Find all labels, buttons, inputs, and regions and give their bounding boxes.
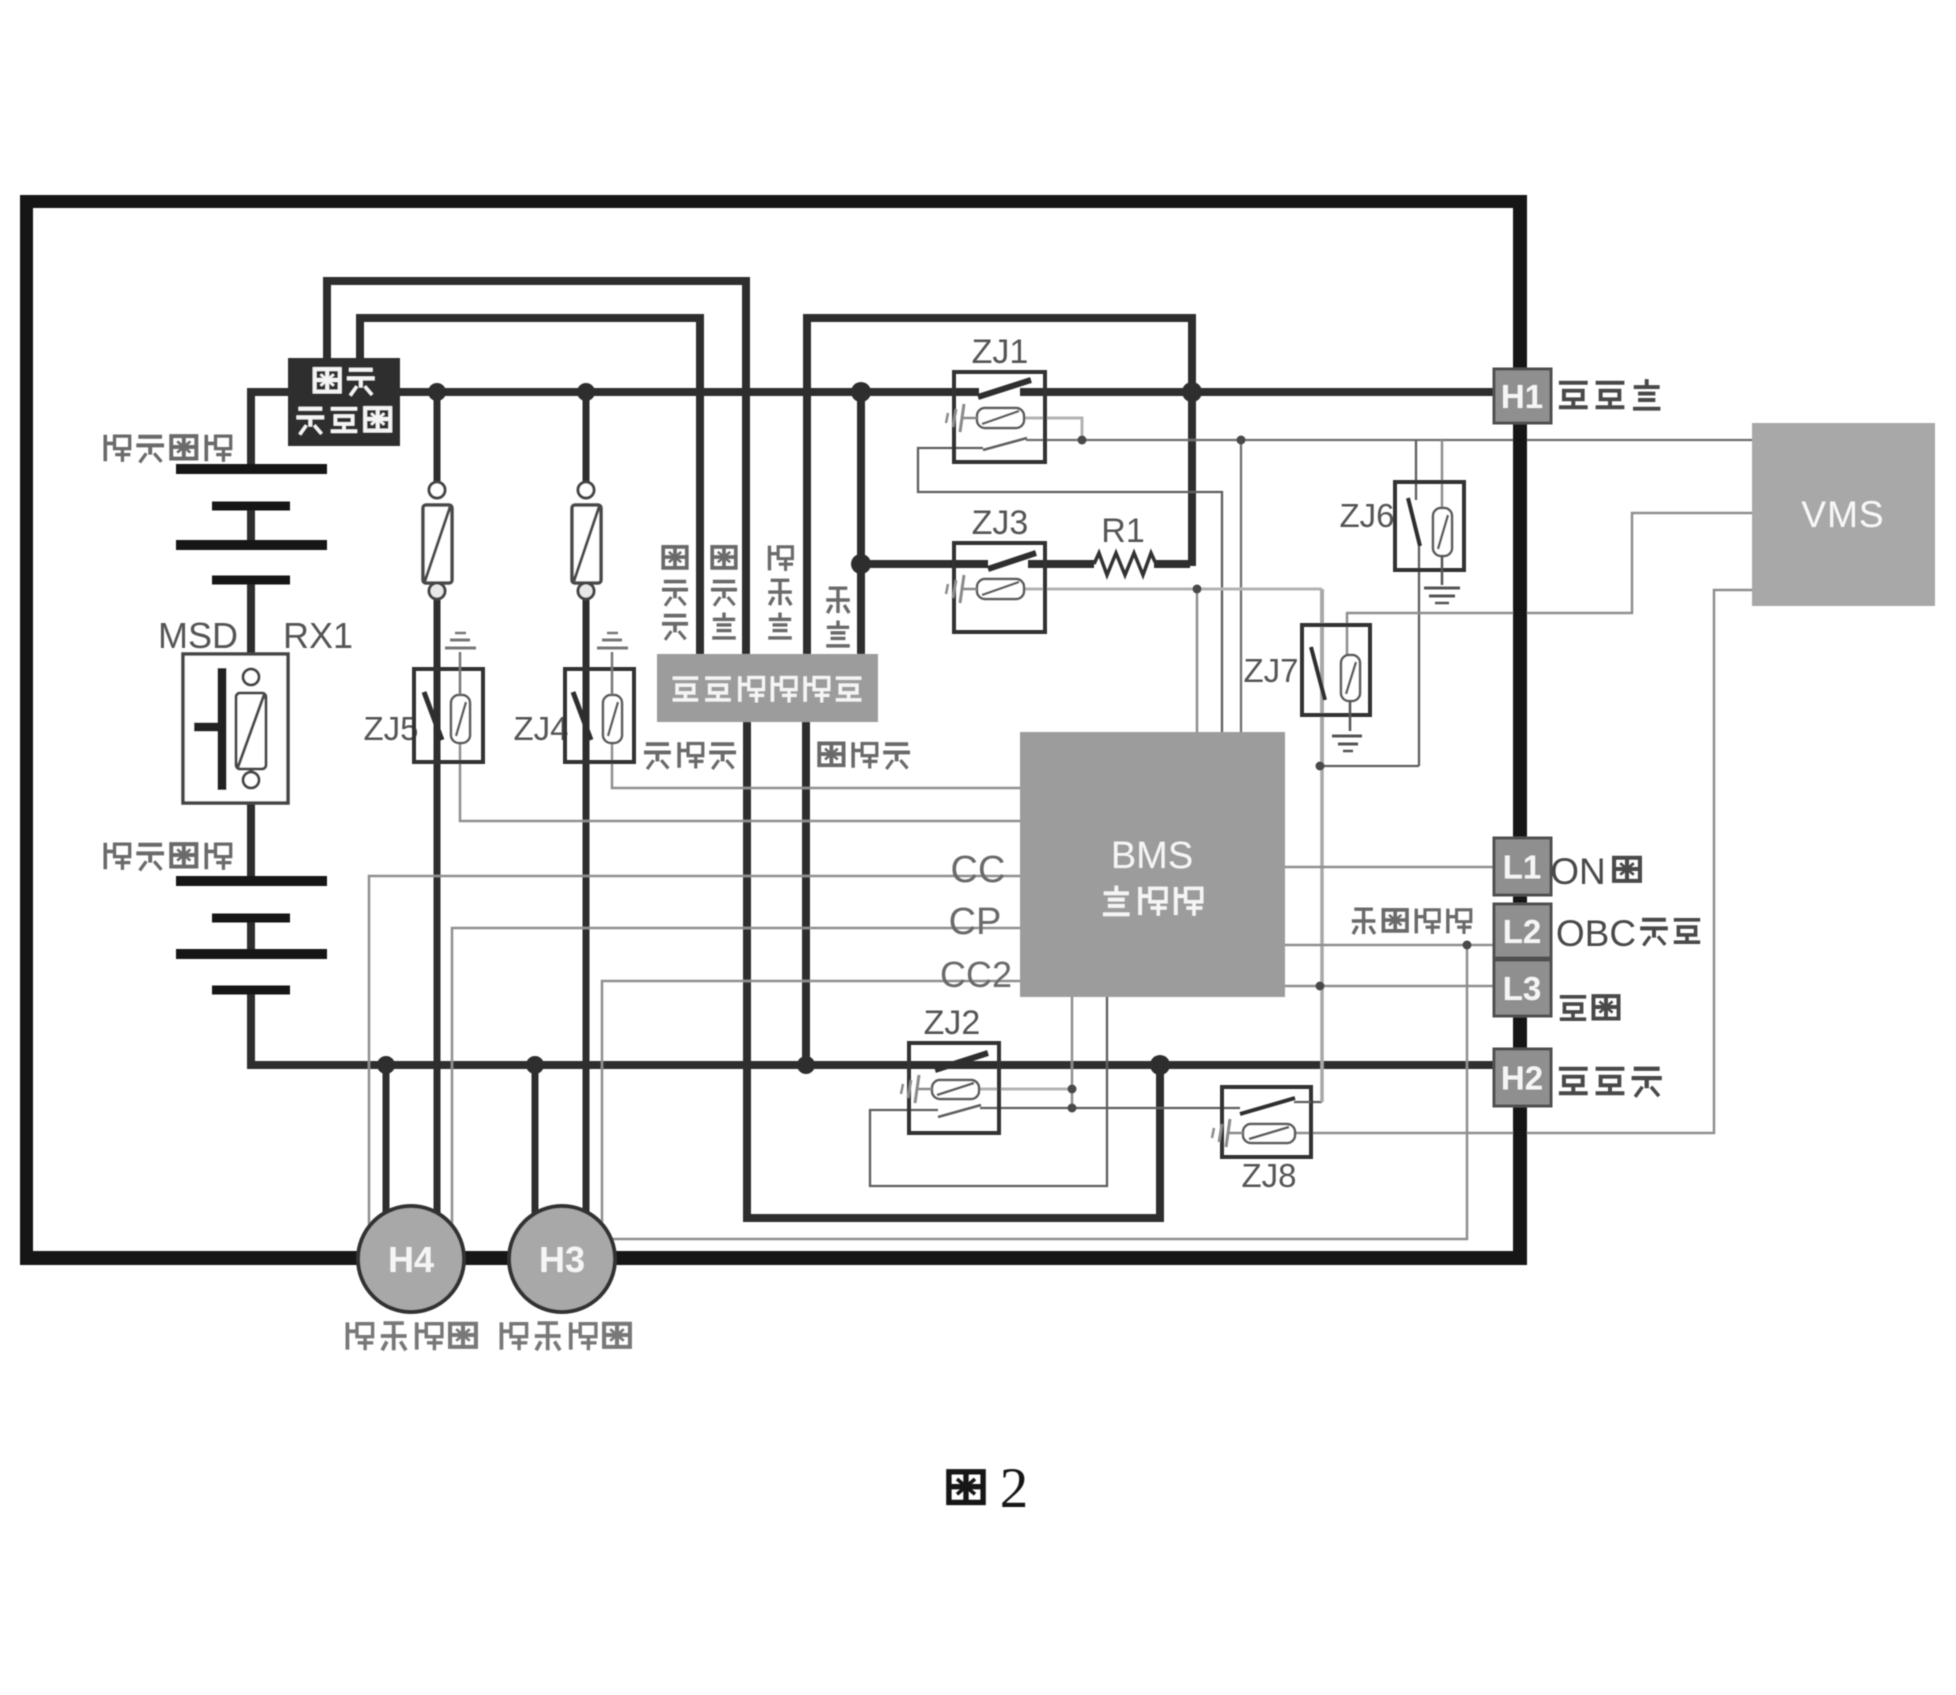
label MSD (158, 615, 238, 656)
wire H4 riser (383, 1067, 390, 1215)
wire top loop current-negative (360, 318, 700, 656)
connector H2 (1494, 1049, 1551, 1106)
wire ZJ4 coil to BMS (612, 744, 1020, 788)
svg-text:RX1: RX1 (283, 615, 353, 656)
svg-text:H4: H4 (388, 1239, 434, 1280)
wire ZJ2 aux line (980, 1107, 1240, 1109)
relay ZJ7 (1302, 625, 1370, 715)
svg-text:OBC: OBC (1556, 913, 1636, 954)
label slow-charge port (347, 1322, 475, 1350)
relay ZJ4 (565, 633, 634, 762)
label OBC-LV (1556, 913, 1700, 954)
relay ZJ2 (909, 1043, 999, 1133)
label HV-positive (1559, 379, 1660, 409)
port H4 circle (358, 1206, 464, 1312)
wire ZJ4 fuse riser (583, 394, 590, 1216)
label BMS (1103, 835, 1202, 916)
wire main-positive branch (857, 390, 865, 656)
VMS box (1752, 423, 1935, 606)
svg-text:ZJ1: ZJ1 (972, 333, 1029, 371)
label power battery 1 (105, 435, 231, 463)
current sensor box (288, 358, 400, 446)
wire ZJ1-aux to BMS (1240, 440, 1242, 732)
wire ZJ1 coil right (1024, 418, 1082, 438)
wire ZJ6 blade bottom chain (1311, 545, 1419, 1102)
caption fig 2 (949, 1457, 1028, 1520)
label HV detect module (673, 676, 862, 702)
wire battery column + negative bus (251, 392, 1494, 1065)
label power battery 2 (105, 843, 231, 871)
relay ZJ3 (954, 543, 1045, 632)
fuse F-ZJ5 (423, 482, 452, 599)
wire ZJ2 coil right (979, 997, 1072, 1108)
svg-text:VMS: VMS (1801, 494, 1884, 535)
battery 1 plates (176, 469, 327, 580)
svg-text:ZJ3: ZJ3 (972, 504, 1029, 542)
svg-text:CC2: CC2 (940, 954, 1012, 995)
wire H3 riser (532, 1067, 539, 1215)
svg-text:ON: ON (1550, 851, 1606, 892)
label system-neg (644, 742, 736, 769)
svg-text:L3: L3 (1503, 970, 1542, 1007)
relay ZJ1 (954, 372, 1045, 462)
label current sensor (296, 369, 390, 434)
ground ZJ6 (1424, 556, 1460, 603)
label current-neg column (662, 547, 688, 640)
relay ZJ8 (1222, 1087, 1311, 1157)
label ZJ1 (972, 333, 1029, 371)
junction dots positive bus (428, 382, 1202, 574)
wire ZJ1 aux feedback line (1026, 439, 1752, 441)
label fast-charge port (501, 1322, 629, 1350)
wire ON line (1285, 866, 1494, 869)
svg-text:ZJ8: ZJ8 (1241, 1157, 1296, 1194)
wire L3 line (1285, 985, 1494, 988)
label always-power (1560, 996, 1619, 1019)
port H3 circle (509, 1206, 615, 1312)
label ZJ4 (513, 710, 568, 747)
junction dots negative bus (377, 1055, 1170, 1075)
wire ZJ7 blade bottom (1311, 647, 1325, 700)
relay ZJ6 (1395, 482, 1464, 570)
label RX1 (283, 615, 353, 656)
MSD handle (194, 668, 222, 790)
label current-pos column (711, 547, 737, 638)
svg-text:H3: H3 (539, 1239, 585, 1280)
label ZJ5 (363, 710, 418, 747)
label main-pos column (826, 588, 850, 646)
connector H1 (1494, 369, 1551, 423)
label CC (951, 849, 1006, 891)
connector symbol ZJ1 coil (946, 404, 977, 432)
BMS box (1020, 732, 1285, 997)
wire CC2 line (602, 981, 1020, 1225)
wire precharge-positive loop (807, 318, 1192, 656)
wire sense vertical through ZJ7 (1320, 589, 1324, 1102)
wire ZJ6 blade stem (1415, 440, 1417, 500)
connector L1 (1494, 838, 1551, 895)
svg-text:ZJ5: ZJ5 (363, 710, 418, 747)
wire ZJ1 aux-left loop (918, 448, 1222, 732)
svg-text:L1: L1 (1503, 849, 1542, 886)
svg-text:R1: R1 (1101, 512, 1144, 550)
label ZJ6 (1339, 497, 1394, 534)
label ZJ2 (924, 1004, 981, 1042)
label precharge-pos column (768, 546, 793, 638)
label charge-activate (1352, 909, 1472, 934)
wire CC line (369, 876, 1020, 1228)
label CP (949, 901, 1002, 943)
label ZJ3 (972, 504, 1029, 542)
label R1 (1101, 512, 1144, 550)
relay ZJ5 (414, 633, 483, 762)
connector symbol ZJ8 coil (1212, 1119, 1243, 1147)
junction dots thin lines (1068, 436, 1472, 1113)
svg-text:H1: H1 (1501, 378, 1543, 415)
svg-text:ZJ7: ZJ7 (1243, 652, 1298, 689)
wire battery-negative (802, 720, 810, 1063)
battery 2 plates (176, 881, 327, 990)
connector L3 (1494, 960, 1551, 1016)
wire ZJ8 coil to VMS (1295, 590, 1752, 1133)
wire charge-activate line (612, 945, 1494, 1239)
svg-text:MSD: MSD (158, 615, 238, 656)
wire positive bus (398, 388, 1494, 396)
svg-text:L2: L2 (1503, 913, 1542, 950)
wire ZJ3 branch (861, 394, 1192, 566)
wire ZJ5 coil to BMS (460, 744, 1020, 821)
svg-text:2: 2 (1000, 1457, 1029, 1520)
svg-text:BMS: BMS (1111, 835, 1193, 877)
label ON-power (1550, 851, 1640, 892)
wire ZJ7 coil to VMS mid (1346, 513, 1752, 655)
wire ZJ2 aux-left loop (870, 997, 1107, 1186)
svg-text:CP: CP (949, 901, 1002, 943)
label HV-negative (1559, 1069, 1662, 1097)
wire top loop current-positive (327, 281, 746, 656)
connector symbol ZJ2 coil (901, 1075, 932, 1103)
svg-text:ZJ2: ZJ2 (924, 1004, 981, 1042)
svg-text:CC: CC (951, 849, 1006, 891)
svg-text:ZJ4: ZJ4 (513, 710, 568, 747)
label ZJ7 (1243, 652, 1298, 689)
connector L2 (1494, 904, 1551, 958)
ground ZJ7 (1332, 701, 1362, 751)
resistor R1 (1094, 553, 1156, 575)
wire ZJ3 coil line (1024, 588, 1322, 591)
enclosure border (20, 195, 1527, 1265)
label battery-neg (819, 742, 910, 769)
wire CP line (452, 928, 1020, 1226)
wire system-negative (747, 720, 1160, 1218)
wire ZJ5 fuse riser (434, 394, 441, 1216)
connector symbol ZJ3 coil (946, 575, 977, 603)
label CC2 (940, 954, 1012, 995)
HV detect module box (657, 654, 878, 722)
label VMS (1801, 494, 1884, 535)
wire ZJ3-coil to BMS (1196, 589, 1199, 732)
MSD box (183, 654, 288, 803)
wire ZJ6 coil stem (1441, 440, 1444, 510)
svg-text:H2: H2 (1501, 1060, 1543, 1097)
fuse F-ZJ4 (572, 482, 601, 599)
label ZJ8 (1241, 1157, 1296, 1194)
fuse RX1 element (236, 669, 266, 788)
svg-text:ZJ6: ZJ6 (1339, 497, 1394, 534)
